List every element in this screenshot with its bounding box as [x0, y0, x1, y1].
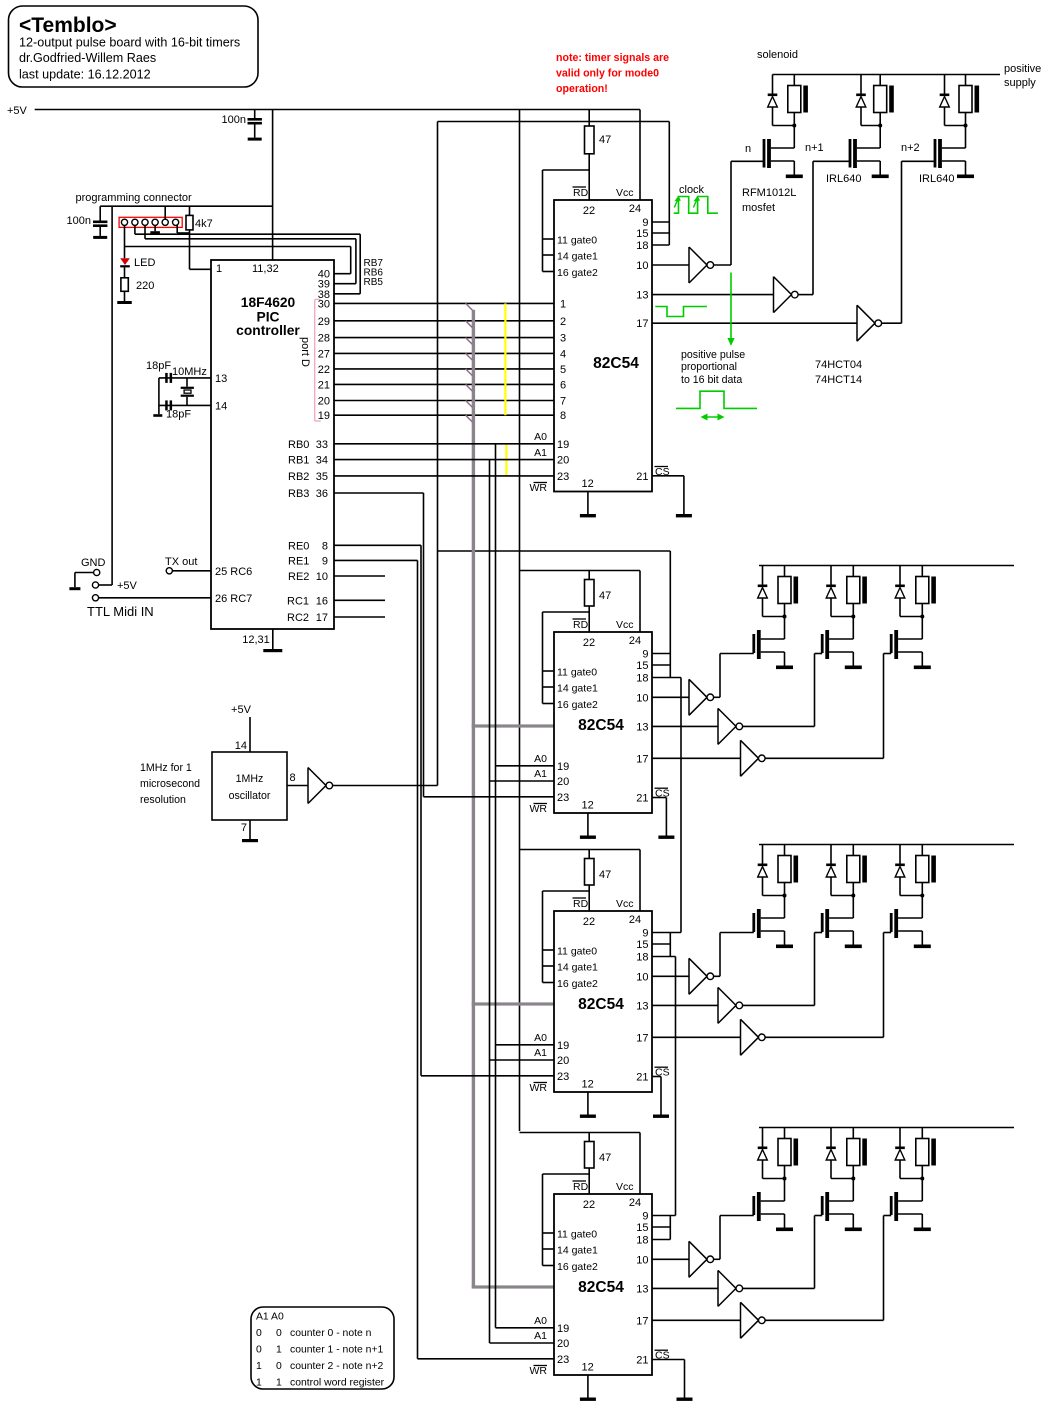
arrow clock edge 1 (green)	[674, 196, 681, 208]
wire Vcc drop U5	[639, 1133, 641, 1195]
wire clock bracket U3	[652, 551, 681, 678]
wire data D5 (portD to U2 pin 6)	[334, 383, 554, 385]
svg-text:17: 17	[636, 318, 648, 330]
ground (U2 pin 12)	[580, 492, 596, 518]
wire data D3 (portD to U2 pin 4)	[334, 352, 554, 354]
wire +5V rail	[35, 109, 640, 111]
svg-text:47: 47	[599, 1152, 611, 1164]
wire U4 pin13 line	[652, 1004, 718, 1006]
label U3 RD	[573, 619, 589, 631]
wire oscillator output	[287, 785, 308, 787]
ground (source row4-2)	[845, 1228, 862, 1232]
svg-text:9: 9	[642, 649, 648, 661]
ground (U5 pin 12)	[580, 1375, 596, 1401]
svg-text:20: 20	[557, 1338, 569, 1350]
svg-text:A0: A0	[534, 1032, 547, 1044]
wire source row4-2	[829, 1214, 853, 1228]
mosfet row4-2	[821, 1192, 829, 1221]
wire gate bracket U4	[543, 891, 590, 983]
inverter U4-C	[741, 1019, 766, 1055]
mosfet row2-2	[821, 630, 829, 659]
ground (U4 pin 12)	[580, 1092, 596, 1118]
svg-text:21: 21	[636, 1355, 648, 1367]
svg-text:12,31: 12,31	[242, 634, 270, 646]
wire positive supply rail row2	[759, 565, 1014, 567]
svg-text:dr.Godfried-Willem Raes: dr.Godfried-Willem Raes	[19, 51, 156, 65]
inverter U5-C	[741, 1302, 766, 1338]
ground (source row4-3)	[914, 1228, 931, 1232]
svg-text:control word register: control word register	[290, 1378, 385, 1389]
svg-text:10: 10	[636, 692, 648, 704]
svg-text:A1: A1	[534, 447, 547, 459]
wire U5 pin13 line	[652, 1287, 718, 1289]
svg-text:programming connector: programming connector	[76, 192, 193, 204]
svg-text:6: 6	[560, 379, 566, 391]
label U4 CS	[655, 1067, 670, 1079]
svg-text:GND: GND	[81, 557, 106, 569]
resistor (solenoid damp) row1-1	[788, 75, 801, 126]
wire gate bracket U5	[543, 1174, 590, 1266]
svg-text:11 gate0: 11 gate0	[557, 946, 597, 958]
svg-text:controller: controller	[236, 323, 300, 338]
svg-text:n+1: n+1	[805, 142, 824, 154]
resistor (solenoid damp) row1-3	[959, 75, 972, 126]
svg-text:22: 22	[583, 1199, 595, 1211]
svg-text:18: 18	[636, 1235, 648, 1247]
ground (source row3-3)	[914, 945, 931, 949]
svg-text:3: 3	[560, 333, 566, 345]
svg-text:port D: port D	[299, 337, 311, 367]
wire source row1-2	[857, 161, 880, 175]
timer U3 82C54 box	[554, 632, 652, 813]
wire clock vertical (oscillator net)	[437, 122, 439, 786]
svg-text:note: timer signals are: note: timer signals are	[556, 52, 669, 64]
ground (source row3-2)	[845, 945, 862, 949]
svg-text:0: 0	[276, 1328, 282, 1339]
svg-text:15: 15	[636, 939, 648, 951]
connector J1 pins	[121, 219, 178, 225]
ground (source row1-2)	[872, 175, 889, 179]
svg-text:29: 29	[318, 316, 330, 328]
svg-text:25 RC6: 25 RC6	[215, 566, 252, 578]
wire Vcc drop to U2 pin24	[639, 110, 641, 201]
solenoid bar row4-2	[862, 1139, 867, 1166]
wire U4 pin10 line	[652, 975, 689, 977]
ground (U2 CS)	[676, 514, 692, 517]
IC U1 18F4620 PIC controller box	[211, 260, 334, 629]
svg-text:A1: A1	[534, 1330, 547, 1342]
waveform mode0 pulse (green)	[655, 307, 707, 317]
wire +5V line U5	[520, 1132, 641, 1134]
wire gate row4-1	[714, 1216, 754, 1260]
label U1 pin RE0 8	[288, 540, 328, 552]
svg-text:Vcc: Vcc	[616, 898, 634, 910]
node junction row4-1	[783, 1177, 787, 1181]
ground (left 100n cap)	[93, 236, 107, 239]
svg-text:10MHz: 10MHz	[172, 366, 207, 378]
bus entry slash D1	[466, 321, 473, 328]
ground (U5 CS)	[677, 1398, 693, 1401]
svg-text:82C54: 82C54	[578, 996, 624, 1013]
svg-text:microsecond: microsecond	[140, 778, 200, 790]
svg-text:8: 8	[290, 772, 296, 784]
svg-text:19: 19	[557, 439, 569, 451]
svg-text:1: 1	[560, 298, 566, 310]
wire oscillator Vcc	[249, 717, 251, 752]
svg-text:23: 23	[557, 471, 569, 483]
node junction row3-2	[851, 894, 855, 898]
svg-text:16: 16	[316, 595, 328, 607]
svg-text:RB1: RB1	[288, 455, 309, 467]
label U1 pin RC1 16	[287, 595, 328, 607]
wire clock bracket U4	[652, 933, 681, 957]
svg-text:1: 1	[256, 1378, 262, 1389]
wire U1 pin14 to crystal	[159, 404, 211, 406]
svg-text:33: 33	[316, 439, 328, 451]
legend row control word	[256, 1378, 385, 1389]
svg-text:solenoid: solenoid	[757, 49, 798, 61]
diode (flyback) row2-1	[758, 566, 785, 617]
wire U3 A1	[490, 780, 555, 782]
svg-text:10: 10	[636, 260, 648, 272]
terminal +5V	[92, 582, 98, 588]
terminal TX out	[166, 568, 172, 574]
svg-text:14 gate1: 14 gate1	[557, 683, 598, 695]
svg-text:24: 24	[629, 914, 641, 926]
svg-text:1: 1	[256, 1361, 262, 1372]
wire drain row1-1	[771, 126, 794, 149]
label U1 pin RB1 34	[288, 455, 328, 467]
svg-text:RD: RD	[573, 898, 589, 910]
oscillator X1 box	[212, 752, 287, 820]
svg-text:22: 22	[583, 637, 595, 649]
svg-text:to 16 bit data: to 16 bit data	[681, 374, 742, 386]
svg-text:19: 19	[557, 761, 569, 773]
svg-text:valid only for mode0: valid only for mode0	[556, 68, 659, 80]
svg-text:30: 30	[318, 298, 330, 310]
svg-text:LED: LED	[134, 257, 155, 269]
label U1 pin RE2 10	[288, 571, 328, 583]
wire U3 pin17 line	[652, 757, 741, 759]
bus tap to U3 (gray)	[472, 724, 554, 727]
wire data D2 (portD to U2 pin 3)	[334, 337, 554, 339]
diode (flyback) row2-2	[826, 566, 853, 617]
capacitor 18pF (bottom)	[165, 400, 172, 410]
solenoid bar row2-2	[862, 577, 867, 604]
svg-text:oscillator: oscillator	[229, 790, 271, 802]
wire U2 CS to ground	[652, 476, 684, 514]
capacitor 100n (left)	[93, 206, 107, 236]
diode (flyback) row4-3	[895, 1128, 922, 1179]
diode (flyback) row1-3	[940, 75, 966, 126]
label U5 WR	[530, 1365, 548, 1377]
svg-text:14: 14	[215, 401, 227, 413]
svg-text:RE2: RE2	[288, 571, 309, 583]
waveform clock (green)	[674, 197, 718, 214]
node junction row2-2	[851, 615, 855, 619]
ground (source row4-1)	[776, 1228, 793, 1232]
ground (oscillator)	[242, 820, 258, 842]
svg-text:28: 28	[318, 333, 330, 345]
svg-text:18: 18	[636, 240, 648, 252]
svg-text:5: 5	[560, 364, 566, 376]
wire U5 pin10 line	[652, 1258, 689, 1260]
svg-text:11 gate0: 11 gate0	[557, 1229, 597, 1241]
resistor 47 (U3)	[585, 571, 595, 633]
wire source row3-2	[829, 931, 853, 945]
label U4 WR	[530, 1082, 548, 1094]
label positive supply	[1004, 63, 1041, 89]
bus entry slash D5	[466, 384, 473, 391]
wire data D6 (portD to U2 pin 7)	[334, 400, 554, 402]
wire U5 WR	[418, 1358, 555, 1360]
svg-text:WR: WR	[530, 1082, 548, 1094]
wire positive supply rail row3	[759, 844, 1014, 846]
wire RB6 net	[145, 225, 356, 283]
mosfet row3-1	[752, 909, 760, 938]
wire U3 CS to ground	[652, 798, 666, 836]
svg-text:A0: A0	[534, 753, 547, 765]
bus entry slash D6	[466, 401, 473, 408]
svg-text:20: 20	[557, 455, 569, 467]
svg-text:15: 15	[636, 228, 648, 240]
label U2 WR	[530, 482, 548, 494]
wire RB5 net	[135, 225, 360, 293]
wire drain row2-3	[898, 617, 922, 640]
diode (flyback) row3-2	[826, 845, 853, 896]
inverter U3-C	[741, 740, 766, 776]
svg-text:10: 10	[316, 571, 328, 583]
wire GND terminal	[75, 573, 94, 588]
svg-text:7: 7	[241, 822, 247, 834]
resistor (solenoid damp) row3-1	[778, 845, 791, 896]
solenoid bar row3-3	[931, 856, 936, 883]
wire +5V terminal	[99, 206, 113, 585]
svg-text:A0: A0	[534, 1315, 547, 1327]
svg-text:26 RC7: 26 RC7	[215, 593, 252, 605]
svg-text:0: 0	[256, 1345, 262, 1356]
node junction row1-1	[792, 124, 796, 128]
title block frame	[9, 6, 259, 87]
inverter U2-B	[774, 277, 799, 313]
wire U1 pin13 to crystal	[159, 377, 211, 379]
wire connector pin 5 to +5V	[164, 206, 166, 219]
resistor (solenoid damp) row2-2	[847, 566, 860, 617]
wire clock feed U4->U5	[675, 957, 677, 1216]
timer U5 82C54 box	[554, 1194, 652, 1375]
resistor (solenoid damp) row2-3	[916, 566, 929, 617]
svg-text:4k7: 4k7	[195, 218, 213, 230]
svg-text:21: 21	[636, 793, 648, 805]
wire source row2-2	[829, 652, 853, 666]
bus entry slash D4	[466, 369, 473, 376]
wire gate row4-3	[765, 1216, 891, 1321]
svg-text:WR: WR	[530, 482, 548, 494]
wire A0 net (RB0 to U2 pin19)	[334, 443, 554, 445]
mosfet row2-3	[890, 630, 898, 659]
wire clock bracket U5	[652, 1216, 676, 1240]
svg-text:counter 2 - note n+2: counter 2 - note n+2	[290, 1361, 384, 1372]
wire A1 net (RB1 to U2 pin20)	[334, 459, 554, 461]
svg-text:23: 23	[557, 792, 569, 804]
svg-text:13: 13	[636, 1000, 648, 1012]
wire drain row3-3	[898, 896, 922, 919]
resistor 47 (U2)	[585, 110, 595, 201]
svg-text:WR: WR	[530, 1365, 548, 1377]
svg-text:74HCT04: 74HCT04	[815, 359, 862, 371]
legend row counter 2	[256, 1361, 384, 1372]
resistor (solenoid damp) row1-2	[874, 75, 887, 126]
resistor 47 (U5)	[585, 1133, 595, 1195]
wire U4 pin17 line	[652, 1036, 741, 1038]
solenoid bar row4-3	[931, 1139, 936, 1166]
waveform positive pulse (green)	[676, 391, 757, 408]
wire drain row4-1	[761, 1179, 785, 1202]
svg-text:17: 17	[636, 1032, 648, 1044]
svg-text:18: 18	[636, 952, 648, 964]
wire +5V distribution vertical	[519, 110, 521, 1132]
bus tap to U5 (gray)	[472, 1285, 554, 1288]
wire RC2 stub	[334, 616, 385, 618]
wire clock bracket U2	[652, 122, 669, 246]
svg-text:1MHz for 1: 1MHz for 1	[140, 762, 192, 774]
svg-text:19: 19	[557, 1040, 569, 1052]
solenoid bar row2-1	[794, 577, 799, 604]
diode (flyback) row3-3	[895, 845, 922, 896]
wire midi to U1 pin26	[99, 597, 211, 599]
svg-text:13: 13	[215, 373, 227, 385]
svg-text:12: 12	[581, 1079, 593, 1091]
svg-text:positive pulse: positive pulse	[681, 349, 745, 361]
ground (U1 pins 12,31)	[263, 629, 282, 652]
svg-text:20: 20	[318, 396, 330, 408]
wire gate row3-3	[765, 933, 891, 1038]
svg-text:22: 22	[583, 916, 595, 928]
wire drain row4-2	[829, 1179, 853, 1202]
svg-text:+5V: +5V	[7, 105, 28, 117]
svg-text:21: 21	[636, 1072, 648, 1084]
svg-text:IRL640: IRL640	[919, 173, 954, 185]
svg-text:17: 17	[636, 1315, 648, 1327]
wire U4 A0	[496, 1044, 555, 1046]
svg-text:resolution: resolution	[140, 794, 186, 806]
svg-text:A1: A1	[534, 768, 547, 780]
svg-text:100n: 100n	[222, 114, 246, 126]
bus entry slash D3	[466, 353, 473, 360]
node junction row3-3	[920, 894, 924, 898]
wire gate row4-2	[743, 1216, 823, 1289]
ground (connector pin 4)	[150, 225, 160, 233]
svg-text:1: 1	[276, 1345, 282, 1356]
svg-text:12: 12	[581, 800, 593, 812]
ground (U4 CS)	[653, 1115, 669, 1118]
wire gate row3-2	[743, 933, 823, 1006]
svg-text:16 gate2: 16 gate2	[557, 1261, 598, 1273]
arrow width (green)	[701, 414, 725, 421]
solenoid bar row1-1	[803, 86, 808, 113]
svg-text:16 gate2: 16 gate2	[557, 267, 598, 279]
wire U2 pin13 line	[652, 294, 774, 296]
wire drain row2-2	[829, 617, 853, 640]
svg-text:WR: WR	[530, 803, 548, 815]
wire RB7 net	[125, 247, 351, 274]
ground (source row2-2)	[845, 666, 862, 670]
wire U5 CS to ground	[652, 1360, 685, 1398]
wire positive supply rail row4	[759, 1127, 1014, 1129]
svg-text:n+2: n+2	[901, 142, 920, 154]
svg-text:12: 12	[581, 1362, 593, 1374]
svg-text:proportional: proportional	[681, 361, 737, 373]
wire U2 pin10 line	[652, 264, 689, 266]
ground (source row2-3)	[914, 666, 931, 670]
svg-text:11 gate0: 11 gate0	[557, 667, 597, 679]
wire U3 A0	[496, 765, 555, 767]
legend row counter 0	[256, 1328, 372, 1339]
svg-text:24: 24	[629, 1197, 641, 1209]
solenoid bar row3-2	[862, 856, 867, 883]
svg-text:100n: 100n	[67, 215, 91, 227]
svg-text:47: 47	[599, 590, 611, 602]
diode (flyback) row2-3	[895, 566, 922, 617]
svg-text:17: 17	[636, 753, 648, 765]
mosfet row1-2	[849, 139, 857, 168]
svg-text:9: 9	[642, 928, 648, 940]
timer U4 82C54 box	[554, 911, 652, 1092]
svg-text:9: 9	[642, 1211, 648, 1223]
label U1 pin RE1 9	[288, 555, 328, 567]
node junction row3-1	[783, 894, 787, 898]
wire WR1 net (RB2 to U2 pin23)	[334, 475, 554, 477]
svg-text:82C54: 82C54	[593, 355, 639, 372]
svg-text:Vcc: Vcc	[616, 619, 634, 631]
svg-text:16 gate2: 16 gate2	[557, 978, 598, 990]
wire source row4-1	[761, 1214, 785, 1228]
wire A1 vertical	[489, 460, 491, 1343]
inverter U4-B	[718, 987, 743, 1023]
wire WR3 net (RE0 to U4)	[334, 545, 421, 1076]
ground (source row1-1)	[786, 175, 803, 179]
ground (source row3-1)	[776, 945, 793, 949]
svg-text:20: 20	[557, 1055, 569, 1067]
label U1 pin RC2 17	[287, 612, 328, 624]
wire drain row1-3	[942, 126, 966, 149]
ground (source row2-1)	[776, 666, 793, 670]
bus entry slash D0	[466, 303, 473, 310]
svg-text:18pF: 18pF	[166, 409, 191, 421]
svg-text:12: 12	[581, 478, 593, 490]
label U1 pin RB2 35	[288, 471, 328, 483]
ground (U3 pin 12)	[580, 813, 596, 839]
wire RC1 stub	[334, 599, 385, 601]
legend box	[251, 1307, 394, 1389]
svg-text:8: 8	[322, 540, 328, 552]
wire source row2-3	[898, 652, 922, 666]
svg-text:last update: 16.12.2012: last update: 16.12.2012	[19, 68, 151, 82]
svg-text:22: 22	[583, 205, 595, 217]
node junction row2-3	[920, 615, 924, 619]
label U2 CS	[655, 466, 670, 478]
svg-text:24: 24	[629, 203, 641, 215]
solenoid bar row3-1	[794, 856, 799, 883]
svg-text:1MHz: 1MHz	[236, 773, 264, 785]
wire gate row2-1	[714, 654, 754, 698]
wire drain row3-1	[761, 896, 785, 919]
wire MCLR to PIC pin 1	[190, 268, 212, 270]
wire gate row3-1	[714, 933, 754, 977]
svg-text:74HCT14: 74HCT14	[815, 374, 862, 386]
svg-text:RD: RD	[573, 187, 589, 199]
wire gate n+1	[798, 161, 850, 294]
